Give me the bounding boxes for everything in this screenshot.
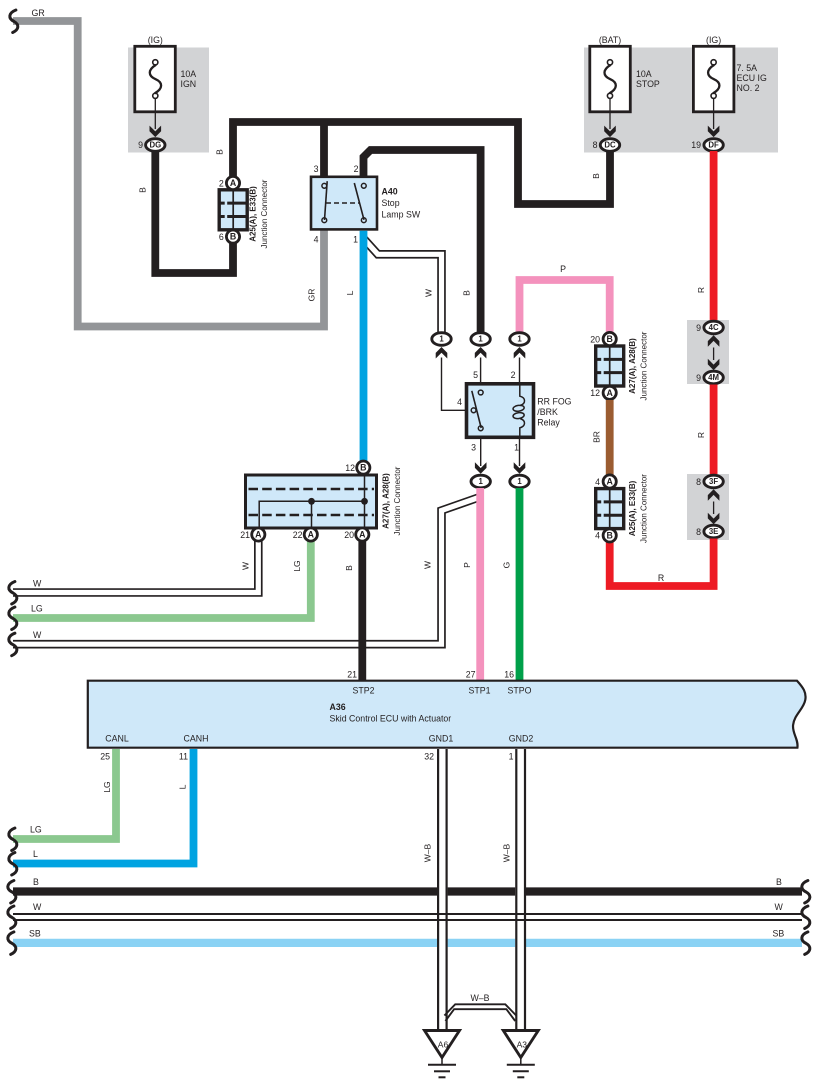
svg-text:R: R bbox=[696, 287, 706, 293]
break symbol GR wire left end bbox=[10, 10, 18, 33]
svg-text:(BAT): (BAT) bbox=[599, 35, 621, 45]
lead between 4C and 4M bbox=[713, 348, 715, 361]
A40 switch arm left bbox=[325, 181, 328, 220]
svg-text:GR: GR bbox=[307, 289, 317, 302]
connector 1 (W) above relay bbox=[432, 333, 451, 346]
wire W ground bus bbox=[13, 913, 802, 915]
connector 3F bbox=[704, 475, 723, 488]
relay RR FOG/BRK body bbox=[467, 384, 534, 438]
fuse 7.5A ECU IG NO.2 bbox=[693, 46, 734, 112]
svg-text:/BRK: /BRK bbox=[537, 407, 558, 417]
pin 22A of left A27 bbox=[304, 528, 317, 541]
lead relay pin 1 down bbox=[519, 438, 521, 467]
svg-text:4: 4 bbox=[595, 477, 600, 487]
break symbol B bus left bbox=[8, 881, 16, 904]
svg-text:A: A bbox=[255, 530, 262, 540]
svg-text:DC: DC bbox=[604, 141, 616, 150]
svg-text:2: 2 bbox=[219, 179, 224, 189]
break symbol SB bus right bbox=[802, 932, 810, 955]
lead P connector to relay pin 2 bbox=[519, 358, 521, 386]
svg-text:BR: BR bbox=[592, 431, 602, 443]
wire B bus from A25 pin 2A to DC bbox=[233, 122, 610, 204]
break symbol B bus right bbox=[802, 881, 810, 904]
svg-text:3F: 3F bbox=[709, 477, 718, 486]
wire P to STP1 bbox=[476, 488, 484, 681]
arrow into DF bbox=[708, 126, 720, 138]
arrow down into 4M bbox=[708, 359, 720, 371]
svg-text:DG: DG bbox=[149, 141, 161, 150]
wire B from A27 20A to ECU STP2 bbox=[358, 540, 366, 681]
svg-text:4C: 4C bbox=[709, 323, 719, 332]
A27 box upper dashed bus bbox=[249, 488, 375, 491]
wire W-B from GND1 bbox=[437, 749, 448, 1031]
svg-text:19: 19 bbox=[691, 140, 701, 150]
svg-text:9: 9 bbox=[696, 323, 701, 333]
svg-text:1: 1 bbox=[509, 752, 514, 762]
svg-text:1: 1 bbox=[514, 443, 519, 453]
wire B branch bus to A40 pin 3 bbox=[320, 122, 328, 178]
relay coil bbox=[520, 384, 525, 405]
wire LG from A27 22A to left edge bbox=[13, 540, 311, 618]
svg-text:(IG): (IG) bbox=[148, 35, 163, 45]
svg-text:25: 25 bbox=[100, 752, 110, 762]
svg-text:20: 20 bbox=[590, 334, 600, 344]
svg-text:A3: A3 bbox=[517, 1040, 528, 1050]
svg-text:A6: A6 bbox=[438, 1040, 449, 1050]
svg-text:1: 1 bbox=[478, 335, 483, 344]
connector 1 (STP1) below relay bbox=[471, 475, 490, 488]
connector 3E bbox=[704, 525, 723, 538]
svg-text:Stop: Stop bbox=[382, 198, 400, 208]
svg-text:W: W bbox=[775, 902, 784, 912]
svg-text:RR FOG: RR FOG bbox=[537, 397, 571, 407]
pin 6B of A25 left bbox=[226, 230, 239, 243]
svg-text:B: B bbox=[776, 877, 782, 887]
svg-text:B: B bbox=[462, 290, 472, 296]
svg-text:LG: LG bbox=[292, 560, 302, 571]
ECU A36 body bbox=[88, 681, 806, 748]
svg-text:1: 1 bbox=[517, 477, 522, 486]
svg-text:B: B bbox=[591, 173, 601, 179]
svg-text:20: 20 bbox=[344, 530, 354, 540]
svg-text:P: P bbox=[462, 562, 472, 568]
svg-text:A: A bbox=[607, 388, 614, 398]
body connector gray box 3F/3E bbox=[687, 474, 729, 540]
svg-text:LG: LG bbox=[31, 604, 43, 614]
svg-text:A: A bbox=[308, 530, 315, 540]
svg-text:LG: LG bbox=[102, 781, 112, 792]
svg-text:B: B bbox=[607, 334, 613, 344]
A40 switch arm right bbox=[354, 183, 364, 220]
svg-text:27: 27 bbox=[466, 670, 476, 680]
ground A6 triangle bbox=[425, 1031, 460, 1058]
break symbol W lower-left bbox=[9, 633, 17, 656]
lead from fuse STOP to DC bbox=[609, 99, 611, 130]
svg-text:CANL: CANL bbox=[105, 734, 129, 744]
svg-text:2: 2 bbox=[511, 370, 516, 380]
lead between 3F and 3E bbox=[713, 502, 715, 515]
arrow below W connector bbox=[436, 347, 448, 359]
svg-text:GR: GR bbox=[32, 8, 45, 18]
svg-text:12: 12 bbox=[345, 463, 355, 473]
svg-text:4M: 4M bbox=[708, 373, 719, 382]
pin 12A of A27 right bbox=[603, 386, 616, 399]
svg-text:L: L bbox=[345, 290, 355, 295]
svg-text:Skid Control ECU with Actuator: Skid Control ECU with Actuator bbox=[330, 714, 452, 724]
svg-text:L: L bbox=[178, 784, 188, 789]
svg-text:SB: SB bbox=[29, 929, 41, 939]
arrow below P connector bbox=[514, 347, 526, 359]
A27 box lower dashed bus bbox=[249, 514, 375, 517]
lead B connector to relay pin 5 bbox=[480, 358, 482, 391]
svg-text:B: B bbox=[230, 232, 236, 242]
junction connector A25(A) E33(B) left grid bbox=[219, 190, 247, 230]
svg-text:L: L bbox=[33, 849, 38, 859]
wire B from A40 pin 2 to relay branch bbox=[364, 150, 481, 332]
svg-text:9: 9 bbox=[696, 373, 701, 383]
arrow into DC bbox=[604, 126, 616, 138]
svg-text:7. 5A: 7. 5A bbox=[737, 63, 758, 73]
svg-text:5: 5 bbox=[473, 370, 478, 380]
svg-text:A: A bbox=[607, 477, 614, 487]
svg-text:ECU IG: ECU IG bbox=[737, 73, 767, 83]
svg-text:A40: A40 bbox=[382, 187, 398, 197]
svg-text:1: 1 bbox=[439, 335, 444, 344]
wire L from A40 pin 1 to A27 pin 12B bbox=[360, 231, 368, 461]
svg-text:W: W bbox=[423, 561, 433, 569]
svg-text:Junction Connector: Junction Connector bbox=[260, 179, 269, 248]
arrow up into 4C bbox=[708, 335, 720, 347]
arrow into connector below pin 3 bbox=[475, 462, 487, 474]
svg-text:Lamp SW: Lamp SW bbox=[382, 210, 421, 220]
break symbol SB bus left bbox=[8, 932, 16, 955]
svg-text:9: 9 bbox=[138, 140, 143, 150]
pin 4A of A25 right bbox=[603, 475, 616, 488]
A27 box junction dots bbox=[308, 498, 315, 505]
svg-text:8: 8 bbox=[593, 140, 598, 150]
junction connector A27(A) A28(B) box bbox=[246, 475, 377, 528]
svg-text:6: 6 bbox=[219, 232, 224, 242]
wire W from A27 21A to left edge bbox=[13, 540, 258, 593]
svg-text:B: B bbox=[138, 187, 148, 193]
svg-text:3: 3 bbox=[314, 164, 319, 174]
break symbol L bottom bbox=[9, 853, 17, 876]
svg-text:B: B bbox=[607, 531, 613, 541]
pin 20B of A27 right bbox=[603, 332, 616, 345]
wire R from DF to 4C bbox=[710, 151, 718, 321]
svg-text:(IG): (IG) bbox=[706, 35, 721, 45]
svg-text:2: 2 bbox=[354, 164, 359, 174]
svg-text:STP1: STP1 bbox=[468, 686, 490, 696]
connector DG bbox=[146, 139, 165, 152]
svg-text:B: B bbox=[215, 149, 225, 155]
svg-text:4: 4 bbox=[314, 235, 319, 245]
svg-text:11: 11 bbox=[179, 752, 188, 762]
wire GR from left edge to A40 pin 4 bbox=[13, 21, 324, 327]
arrow into connector below pin 1 bbox=[514, 462, 526, 474]
svg-text:R: R bbox=[696, 432, 706, 438]
svg-text:Junction Connector: Junction Connector bbox=[640, 331, 649, 400]
A40 switch contact circles left bbox=[322, 183, 327, 188]
relay switch contacts bbox=[478, 390, 483, 395]
svg-text:B: B bbox=[360, 463, 366, 473]
ground A3 triangle bbox=[503, 1031, 538, 1058]
svg-text:STOP: STOP bbox=[636, 79, 660, 89]
svg-text:W: W bbox=[33, 579, 42, 589]
wire L from CANH to left edge bbox=[13, 749, 194, 864]
svg-text:1: 1 bbox=[353, 235, 358, 245]
arrow into DG bbox=[150, 126, 162, 138]
fuse block (BAT)/(IG) gray box bbox=[584, 48, 778, 153]
wire G to STPO bbox=[516, 488, 524, 681]
switch A40 body bbox=[311, 177, 377, 230]
svg-text:A: A bbox=[359, 530, 366, 540]
svg-text:W–B: W–B bbox=[502, 843, 512, 862]
break symbol LG left bbox=[9, 607, 17, 630]
break symbol W bus right bbox=[802, 906, 810, 929]
svg-text:A: A bbox=[230, 178, 237, 188]
svg-text:B: B bbox=[33, 877, 39, 887]
svg-text:G: G bbox=[502, 562, 512, 569]
wire R from 4M to 3F bbox=[710, 385, 718, 476]
svg-text:A25(A), E33(B): A25(A), E33(B) bbox=[628, 480, 637, 536]
svg-text:A27(A), A28(B): A27(A), A28(B) bbox=[382, 473, 391, 529]
svg-text:21: 21 bbox=[240, 530, 250, 540]
fuse 10A IGN bbox=[135, 46, 176, 112]
lead W connector to relay pin 4 bbox=[442, 358, 472, 411]
arrow down into 3E bbox=[708, 513, 720, 525]
svg-text:GND2: GND2 bbox=[509, 734, 534, 744]
svg-text:GND1: GND1 bbox=[429, 734, 454, 744]
svg-text:LG: LG bbox=[30, 825, 42, 835]
A40 switch contact circles right bbox=[361, 183, 366, 188]
svg-text:Relay: Relay bbox=[537, 418, 560, 428]
A27 box internal wiring bbox=[259, 501, 364, 526]
relay switch arm bbox=[472, 391, 481, 428]
svg-text:1: 1 bbox=[517, 335, 522, 344]
svg-text:4: 4 bbox=[457, 397, 462, 407]
svg-text:SB: SB bbox=[773, 929, 785, 939]
svg-text:P: P bbox=[560, 264, 566, 274]
connector 1 (STPO) below relay bbox=[510, 475, 529, 488]
svg-text:W–B: W–B bbox=[470, 993, 489, 1003]
break symbol LG bottom bbox=[9, 828, 17, 851]
svg-text:DF: DF bbox=[708, 141, 719, 150]
ground A6 symbol bbox=[441, 1058, 443, 1065]
wire BR from A27 12A to A25 4A bbox=[606, 400, 614, 475]
break symbol W left bbox=[9, 582, 17, 605]
lead from fuse IGN to DG bbox=[154, 99, 156, 130]
svg-text:IGN: IGN bbox=[181, 79, 197, 89]
wire B ground bus bbox=[13, 887, 802, 895]
svg-text:22: 22 bbox=[293, 530, 303, 540]
wire R from 3E to A25 pin 4B bbox=[610, 539, 714, 587]
arrow up into 3F bbox=[708, 489, 720, 501]
wire B from DG to A25 pin 6B bbox=[155, 150, 233, 273]
lead relay pin 3 down bbox=[480, 438, 482, 467]
wire SB ground bus bbox=[13, 939, 802, 947]
svg-text:16: 16 bbox=[504, 670, 514, 680]
fuse 10A STOP bbox=[590, 46, 631, 112]
svg-text:32: 32 bbox=[424, 752, 434, 762]
svg-text:R: R bbox=[658, 573, 664, 583]
svg-text:W: W bbox=[33, 630, 42, 640]
body connector gray box 4C/4M bbox=[687, 320, 729, 384]
fuse block (IG) gray box bbox=[128, 48, 209, 153]
pin 12B of left A27 bbox=[357, 461, 370, 474]
svg-text:8: 8 bbox=[696, 477, 701, 487]
svg-text:3E: 3E bbox=[709, 527, 719, 536]
svg-text:B: B bbox=[344, 565, 354, 571]
pin 2A of A25 left bbox=[226, 176, 239, 189]
svg-text:Junction Connector: Junction Connector bbox=[640, 474, 649, 543]
svg-text:1: 1 bbox=[479, 477, 484, 486]
wire W-B bridge bbox=[444, 1004, 516, 1015]
wire P from relay feed to A27 pin 20B bbox=[520, 280, 610, 333]
wire W-B from GND2 bbox=[515, 749, 526, 1031]
svg-text:10A: 10A bbox=[636, 69, 652, 79]
wire W branch from relay pin 3 node to left edge bbox=[13, 497, 480, 644]
svg-text:Junction Connector: Junction Connector bbox=[393, 466, 402, 535]
svg-text:NO. 2: NO. 2 bbox=[737, 83, 760, 93]
connector DF bbox=[704, 139, 723, 152]
wire W from A40 pin 1 bbox=[364, 239, 442, 333]
svg-text:W–B: W–B bbox=[423, 843, 433, 862]
pin 21A of left A27 bbox=[252, 528, 265, 541]
svg-text:W: W bbox=[241, 562, 251, 570]
svg-text:W: W bbox=[33, 902, 42, 912]
junction connector A27(A) A28(B) right grid bbox=[596, 346, 624, 386]
arrow below B connector bbox=[475, 347, 487, 359]
pin 4B of A25 right bbox=[603, 529, 616, 542]
connector 1 (B) above relay bbox=[471, 333, 490, 346]
svg-text:W: W bbox=[424, 289, 434, 297]
svg-text:A36: A36 bbox=[330, 702, 346, 712]
svg-text:CANH: CANH bbox=[184, 734, 209, 744]
svg-text:STPO: STPO bbox=[508, 686, 532, 696]
svg-text:4: 4 bbox=[595, 531, 600, 541]
svg-text:10A: 10A bbox=[181, 69, 197, 79]
A40 dashed link bbox=[326, 202, 359, 204]
lead from fuse ECU-IG to DF bbox=[713, 99, 715, 130]
wire LG from CANL to left edge bbox=[13, 749, 116, 839]
pin 20A of left A27 bbox=[356, 528, 369, 541]
connector 4M bbox=[704, 371, 723, 384]
svg-text:A27(A), A28(B): A27(A), A28(B) bbox=[628, 338, 637, 394]
svg-text:STP2: STP2 bbox=[352, 686, 374, 696]
svg-text:12: 12 bbox=[590, 388, 600, 398]
svg-text:A25(A), E33(B): A25(A), E33(B) bbox=[249, 186, 258, 242]
svg-text:8: 8 bbox=[696, 527, 701, 537]
connector 4C bbox=[704, 321, 723, 334]
ground A3 symbol bbox=[520, 1058, 522, 1065]
svg-text:21: 21 bbox=[347, 670, 357, 680]
connector 1 (P) above relay bbox=[510, 333, 529, 346]
junction connector A25(A) E33(B) right grid bbox=[596, 489, 624, 529]
break symbol W bus left bbox=[8, 906, 16, 929]
connector DC bbox=[600, 139, 619, 152]
svg-text:3: 3 bbox=[471, 443, 476, 453]
